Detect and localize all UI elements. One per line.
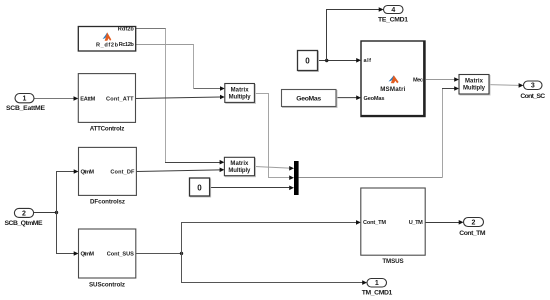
wire mux out vertical up	[442, 89, 444, 178]
product block Matrix Multiply MM2	[224, 157, 255, 176]
wire Rdf2b output horizontal	[136, 28, 166, 30]
node junction in2	[55, 211, 58, 214]
wire MSMatri.Mec to MM3.in1	[426, 77, 459, 82]
svg-text:SCB_EattME: SCB_EattME	[6, 105, 45, 112]
svg-text:SUScontrolz: SUScontrolz	[89, 281, 125, 288]
svg-text:Matrix: Matrix	[231, 88, 250, 94]
svg-text:0: 0	[305, 56, 310, 65]
svg-text:DFcontrolsz: DFcontrolsz	[90, 198, 125, 205]
svg-text:EAttM: EAttM	[80, 96, 95, 102]
svg-text:Cont_TM: Cont_TM	[363, 220, 386, 226]
svg-text:Cont_SUS: Cont_SUS	[107, 252, 134, 258]
wire Rdf2b into MM2.in1	[165, 160, 224, 165]
svg-text:Multiply: Multiply	[228, 168, 251, 174]
constant 0 left	[190, 178, 211, 197]
wire Rc12b output horizontal	[136, 44, 194, 46]
output port 3 Cont_SC	[520, 81, 545, 100]
wire mux out horizontal	[299, 177, 443, 179]
svg-text:QtmM: QtmM	[81, 252, 95, 258]
wire Cont_DF to MM2.in2	[136, 168, 224, 173]
wire Cont_SUS to junction	[136, 253, 182, 255]
svg-text:Multiply: Multiply	[463, 86, 486, 92]
MATLAB logo MSMatri	[389, 75, 399, 83]
node junction alf	[325, 59, 328, 62]
wire MM3 out to out3	[489, 83, 523, 88]
svg-text:Cont_SC: Cont_SC	[520, 93, 545, 100]
svg-text:TM_CMD1: TM_CMD1	[362, 290, 393, 297]
svg-text:MSMatri: MSMatri	[380, 86, 405, 93]
svg-text:Multiply: Multiply	[229, 95, 252, 101]
svg-text:4: 4	[391, 7, 395, 14]
output port 2 Cont_TM	[459, 218, 486, 238]
wire junction down to SUScontrolz.QtmM	[57, 213, 79, 256]
svg-text:1: 1	[23, 96, 27, 103]
wire constant zero left to mux in3	[210, 186, 294, 191]
svg-text:Matrix: Matrix	[465, 79, 484, 85]
svg-text:TMSUS: TMSUS	[382, 258, 403, 265]
wire TMSUS.U_TM to out2	[425, 220, 463, 225]
svg-text:GeoMas: GeoMas	[296, 95, 321, 102]
svg-text:U_TM: U_TM	[409, 220, 423, 226]
wire junction up to DFcontrolsz.QtmM	[57, 169, 79, 212]
svg-text:Cont_DF: Cont_DF	[110, 169, 135, 175]
wire Rc12b into MM1.in1	[194, 86, 225, 91]
wire Rdf2b vertical down	[165, 29, 167, 163]
svg-text:alf: alf	[364, 58, 372, 64]
subsystem TMSUS	[361, 188, 425, 265]
subsystem ATTControlz	[78, 74, 135, 133]
svg-text:SCB_QtmME: SCB_QtmME	[5, 220, 43, 227]
svg-text:Rc12b: Rc12b	[119, 42, 135, 48]
node junction Cont_SUS	[180, 252, 183, 255]
MATLAB logo R_df2b	[103, 32, 112, 40]
svg-text:ATTControlz: ATTControlz	[90, 125, 125, 132]
wire into MM3.in2	[442, 86, 459, 91]
MATLAB function block R_df2b	[78, 26, 135, 51]
wire in1 to ATTControlz.EAttM	[34, 96, 78, 101]
input port 1 SCB_EattME	[6, 94, 45, 113]
svg-text:Matrix: Matrix	[230, 161, 249, 167]
product block Matrix Multiply MM3	[459, 75, 490, 96]
wire junction down to TM_CMD1	[182, 254, 368, 285]
wire junction up to TE_CMD1	[327, 7, 384, 60]
svg-text:Cont_TM: Cont_TM	[459, 230, 486, 237]
svg-text:Cont_ATT: Cont_ATT	[106, 96, 134, 102]
subsystem DFcontrolsz	[79, 147, 137, 205]
svg-text:Mec: Mec	[413, 77, 423, 83]
input port 2 SCB_QtmME	[5, 208, 43, 226]
from block GeoMas	[282, 90, 338, 108]
wire Rc12b vertical down	[193, 45, 195, 89]
wire in2 to junction	[34, 212, 57, 214]
svg-text:QtmM: QtmM	[81, 169, 95, 175]
mux bar	[294, 161, 299, 195]
output port 4 TE_CMD1	[378, 6, 408, 24]
svg-text:0: 0	[197, 183, 202, 192]
wire GeoMas to MSMatri.GeoMas	[336, 95, 361, 100]
wire MM2 out to mux in1	[255, 166, 294, 171]
output port 1 TM_CMD1	[362, 279, 393, 297]
wire MM1 out to mux in2	[254, 94, 294, 181]
wire Cont_ATT to MM1.in2	[136, 95, 225, 100]
constant 0 right	[298, 51, 319, 72]
wire constant zero right to MSMatri.alf	[318, 58, 361, 63]
wire junction up to TMSUS.Cont_TM	[182, 220, 361, 253]
svg-text:1: 1	[375, 280, 379, 287]
svg-text:Rdf2b: Rdf2b	[118, 26, 135, 32]
subsystem SUScontrolz	[79, 229, 136, 288]
svg-text:GeoMas: GeoMas	[364, 96, 385, 102]
svg-text:TE_CMD1: TE_CMD1	[378, 16, 408, 23]
svg-text:R_df2b: R_df2b	[96, 43, 119, 49]
product block Matrix Multiply MM1	[225, 84, 256, 104]
svg-text:2: 2	[22, 210, 26, 217]
svg-text:3: 3	[531, 83, 535, 90]
svg-text:2: 2	[472, 219, 476, 226]
MATLAB function block MSMatri	[361, 41, 425, 117]
